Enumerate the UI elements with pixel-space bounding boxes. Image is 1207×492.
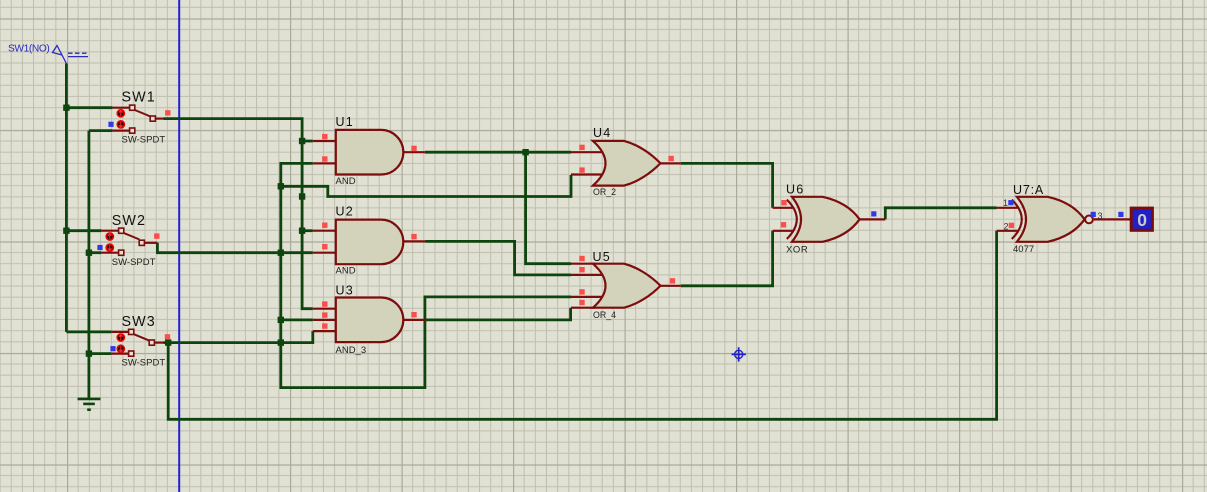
U3 output pin [403,319,425,321]
U1 body [336,130,404,175]
wire: U1 output to U4 input 1 [425,151,571,154]
U6 input state squares [781,200,786,205]
SW1 top contact pin [112,107,129,109]
svg-text:AND_3: AND_3 [336,345,367,356]
svg-text:U5: U5 [593,250,611,264]
U7 pin 2 state square (red) [1009,223,1014,228]
svg-text:2: 2 [1004,222,1009,232]
U2 input pin 1 [313,230,336,232]
SW1 pole pin [155,117,163,119]
svg-text:SW-SPDT: SW-SPDT [122,135,166,146]
U5 input pin 3 [571,296,602,298]
junction: vertical A / U2 input 1 [299,228,305,234]
wire: left rail to SW3 top contact [66,330,111,333]
wire: vertical A to U2 input 1 [302,229,313,232]
SW3 red state square [165,334,170,339]
junction: vertical A stray dot [299,193,305,199]
U3 input pin 3 [313,330,336,332]
U3 output state square [411,312,416,317]
wire: U4 output down to U6 input 1 [681,163,773,207]
wire: B branch to U3 input 2 [281,318,313,321]
U6 back hooks [787,200,797,239]
U1 input state squares [322,134,327,139]
U1 output state square [411,146,416,151]
U4 output state square [668,156,673,161]
SW1 top contact square [130,105,135,110]
wire: SW3 junction down to long bottom run up to U7 pin 2 [168,231,996,419]
U6 output state square (blue) [871,211,876,216]
junction: ground rail / SW3 bottom [86,350,92,356]
SW2 lever [124,233,140,240]
SW1 actuator up arrow [117,110,124,117]
SW2 top contact pin [101,230,118,232]
U2 body [336,220,404,265]
wire: U5 output up to U6 input 2 [681,231,773,286]
xnor-gate U7:A (4077) [997,183,1132,255]
U4 input state squares [579,145,584,150]
and-gate U3 (3 input) [313,284,425,356]
switch SW2 (SW-SPDT) [97,213,159,268]
SW3 actuator down arrow [117,345,124,352]
wire: left rail to SW2 top contact [66,229,101,232]
wire: U3 output to U5 input 4 jog [425,308,571,320]
wire: left rail to SW1 top contact [66,106,112,109]
ground symbol [78,399,101,410]
U5 input pin 2 [571,274,602,276]
wire: SW2 pole jog down to row and to U2 input 2 [157,243,312,253]
svg-text:SW3: SW3 [122,314,156,330]
U6 output pin [860,218,886,220]
junction: vertical B / SW3 row [278,339,284,345]
U4 body [593,141,661,186]
SW1 lever [135,110,151,117]
SW1 actuator down arrow [117,121,124,128]
U3 input pin 2 [313,319,336,321]
wire: SW1 pole to vertical A [164,119,313,309]
U2 output pin [403,240,425,242]
svg-text:OR_2: OR_2 [593,187,616,197]
U5 input pin 4 [571,307,595,309]
wire: ground rail V2 [88,131,91,399]
switch SW1 (SW-SPDT) [108,90,170,146]
svg-text:U6: U6 [786,183,804,197]
SW3 blue state square [110,346,115,351]
SW3 bottom contact square [129,351,134,356]
U5 body [593,264,661,308]
svg-text:AND: AND [336,176,356,187]
SW2 pole contact square [139,240,144,245]
or-gate U4 (OR_2) [571,126,681,197]
svg-text:SW-SPDT: SW-SPDT [112,257,156,268]
U7 output pin to probe [1094,218,1132,220]
junction: SW3 pole / bottom run [165,339,171,345]
SW3 bottom contact pin [111,353,128,355]
logic probe state square (blue) [1118,212,1123,217]
wire: SW1(NO) terminal drop, left rail to switch top contacts [65,64,68,332]
SW3 top contact pin [111,331,128,333]
U6 input pin 1 [773,207,793,209]
junction: left rail / SW1 top [63,105,69,111]
svg-text:XOR: XOR [786,244,808,255]
wire: vertical B from U1 input 2 down to bottom jog [281,163,571,387]
SW1 pole contact square [150,116,155,121]
U4 input pin 2 [571,173,602,175]
U5 output pin [660,285,681,287]
junction dots [63,105,529,357]
U5 output state square [670,278,675,283]
svg-text:4077: 4077 [1013,244,1034,255]
SW2 red state square [154,233,159,238]
U1 output pin [403,151,425,153]
junction: vertical B / SW2 row [278,250,284,256]
U7 input pin 1 [997,207,1018,209]
sheet origin marker [732,347,746,361]
U7 output bubble [1085,216,1093,224]
U7 pin 3 state square (blue) [1091,212,1096,217]
svg-text:U7:A: U7:A [1013,183,1044,197]
wire: U6 output jog up to U7 input 1 [885,208,996,220]
switch SW3 (SW-SPDT) [110,314,170,369]
U7 input pin 2 [997,230,1018,232]
wire: SW3 bottom contact to ground rail [89,352,112,355]
SW3 pole contact square [149,340,154,345]
terminal SW1(NO) [8,43,88,63]
svg-text:1: 1 [1003,198,1008,208]
U6 body [792,197,860,242]
SW3 pole pin [154,342,163,344]
junction: left rail / SW2 top [63,228,69,234]
svg-text:SW1: SW1 [122,90,156,106]
SW2 bottom contact square [119,250,124,255]
U2 input pin 2 [313,252,336,254]
svg-text:SW1(NO): SW1(NO) [8,43,49,54]
wire: B branch to U4 input 2 with jog [281,175,571,197]
U6 input pin 2 [773,230,793,232]
U2 output state square [411,234,416,239]
svg-text:SW-SPDT: SW-SPDT [122,358,166,369]
SW1 bottom contact square [130,128,135,133]
U3 input state squares [322,301,327,306]
SW2 actuator up arrow [106,233,113,240]
SW3 actuator up arrow [117,334,124,341]
or-gate U5 (OR_4) [571,250,681,320]
wire: SW1 bottom contact to ground rail [89,129,113,132]
svg-text:3: 3 [1098,211,1103,221]
U1 input pin 1 [313,140,336,142]
wire: vertical A to U1 input 1 [302,140,313,143]
svg-text:0: 0 [1137,210,1147,230]
U7 body [1017,197,1085,242]
SW1 red state square [165,110,170,115]
and-gate U2 [313,205,426,277]
U3 body [336,298,404,343]
SW2 blue state square [97,245,102,250]
svg-text:U4: U4 [593,126,611,140]
and-gate U1 [313,115,425,187]
SW2 bottom contact pin [101,252,118,254]
U3 input pin 1 [313,308,336,310]
junction: ground rail / SW2 bottom [86,250,92,256]
SW2 top contact square [119,228,124,233]
U7 back hooks [1012,200,1022,239]
U1 input pin 2 [313,162,336,164]
U5 input state squares [579,256,584,261]
U4 output pin [660,162,681,164]
wire: U2 output jog down to U5 input 2 [426,241,572,275]
U7 pin 1 state square (blue) [1008,200,1013,205]
SW1 blue state square [108,122,113,127]
U5 input pin 1 [571,263,595,265]
svg-text:U1: U1 [336,115,354,129]
SW1 bottom contact pin [112,130,129,132]
wire: SW3 pole row to U3 input 3 jog [164,331,313,343]
U2 input state squares [322,223,327,228]
SW3 lever [134,334,150,341]
sheet border blue line [178,0,180,492]
junction: U1 out / U5 branch [522,149,528,155]
junction: vertical B / U3 input 2 [278,317,284,323]
junction: vertical B / U4 branch [278,183,284,189]
wire: SW2 bottom contact to ground rail [89,251,102,254]
SW2 actuator down arrow [106,244,113,251]
svg-text:U2: U2 [336,205,354,219]
svg-text:OR_4: OR_4 [593,310,616,320]
svg-text:SW2: SW2 [112,213,146,229]
SW3 top contact square [129,329,134,334]
SW2 pole pin [144,242,157,244]
svg-text:AND: AND [336,266,356,277]
junction: vertical A / U1 input 1 [299,138,305,144]
logic probe showing 0 [1131,208,1152,230]
U4 input pin 1 [571,151,602,153]
xor-gate U6 [773,183,886,256]
wire: U1 output branch down to U5 input 1 [526,152,571,264]
svg-text:U3: U3 [336,284,354,298]
